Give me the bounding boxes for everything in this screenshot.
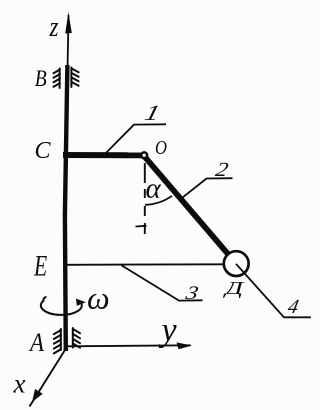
svg-text:x: x [13,368,26,398]
svg-text:E: E [33,249,47,282]
pivot circle at O [141,152,147,158]
label 4 [286,296,301,318]
shaft AB [65,65,68,351]
leader line for label 4 [236,264,311,318]
label O [155,137,167,159]
dashed vertical line below O [144,163,146,236]
label B [35,66,47,92]
label E [33,249,47,282]
leader line for label 2 [182,178,233,198]
label D (Cyrillic De) [223,279,245,298]
leader line for label 3 [122,265,203,300]
label 3 [183,283,201,304]
y axis arrowhead [177,342,193,349]
tick on dashed line [136,225,147,228]
bearing A [54,328,80,353]
ball D [224,251,249,276]
z axis arrowhead [65,12,72,34]
svg-text:4: 4 [286,296,301,318]
leader line for label 1 [106,124,166,153]
label 1 [142,100,162,125]
omega rotation arrow [41,297,82,315]
z axis line [67,15,70,66]
svg-text:z: z [49,10,59,42]
angle arc alpha [145,196,172,205]
label z [49,10,59,42]
svg-text:B: B [35,66,47,92]
label A [28,329,45,358]
svg-text:1: 1 [142,100,162,125]
svg-text:A: A [28,329,45,358]
svg-text:y: y [159,312,178,349]
x axis arrowhead [32,389,43,402]
omega arrowhead [76,299,86,306]
rod 2 (O to ball) [145,157,237,264]
svg-text:α: α [146,173,162,205]
svg-text:O: O [155,137,167,159]
rod 1 (C to O) [63,152,145,158]
label 2 [214,158,231,180]
bearing B [54,68,79,89]
x axis line [30,350,66,407]
svg-text:C: C [35,138,52,164]
svg-text:Д: Д [223,279,245,298]
line E to ball [64,263,224,266]
y axis line [66,345,191,346]
svg-text:ω: ω [87,280,110,316]
svg-text:2: 2 [214,158,231,180]
